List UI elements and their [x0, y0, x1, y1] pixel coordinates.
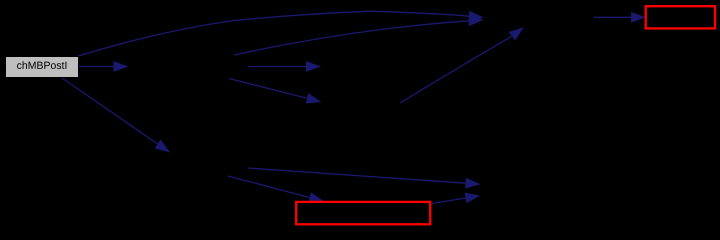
edge redboxB->node9 (up-right arrow)	[432, 193, 480, 204]
edge node8->redboxB (diagonal arrow into red box)	[228, 176, 324, 203]
edge node2->node4 (diagonal arrow)	[229, 79, 322, 104]
edge chMBPostI->node8 (diagonal down arrow)	[62, 78, 170, 153]
edge node8->node9 (long shallow arrow)	[248, 168, 481, 189]
edge chMBPostI->node5 (top long curve)	[78, 11, 484, 56]
edge node5->redboxA (horizontal arrow top right)	[594, 12, 647, 23]
edge node4->node5 (curve up-right)	[400, 27, 524, 103]
edge node2->node3 (horizontal arrow middle)	[248, 61, 321, 72]
edge node2->node5 (second curve to top)	[234, 15, 484, 55]
node redboxB (truncated node bottom)	[296, 202, 430, 224]
node chMBPostI (grey current-function box)	[6, 57, 79, 78]
node redboxA (truncated node top right)	[646, 6, 715, 28]
edge chMBPostI->node2 (horizontal arrow)	[78, 61, 129, 72]
